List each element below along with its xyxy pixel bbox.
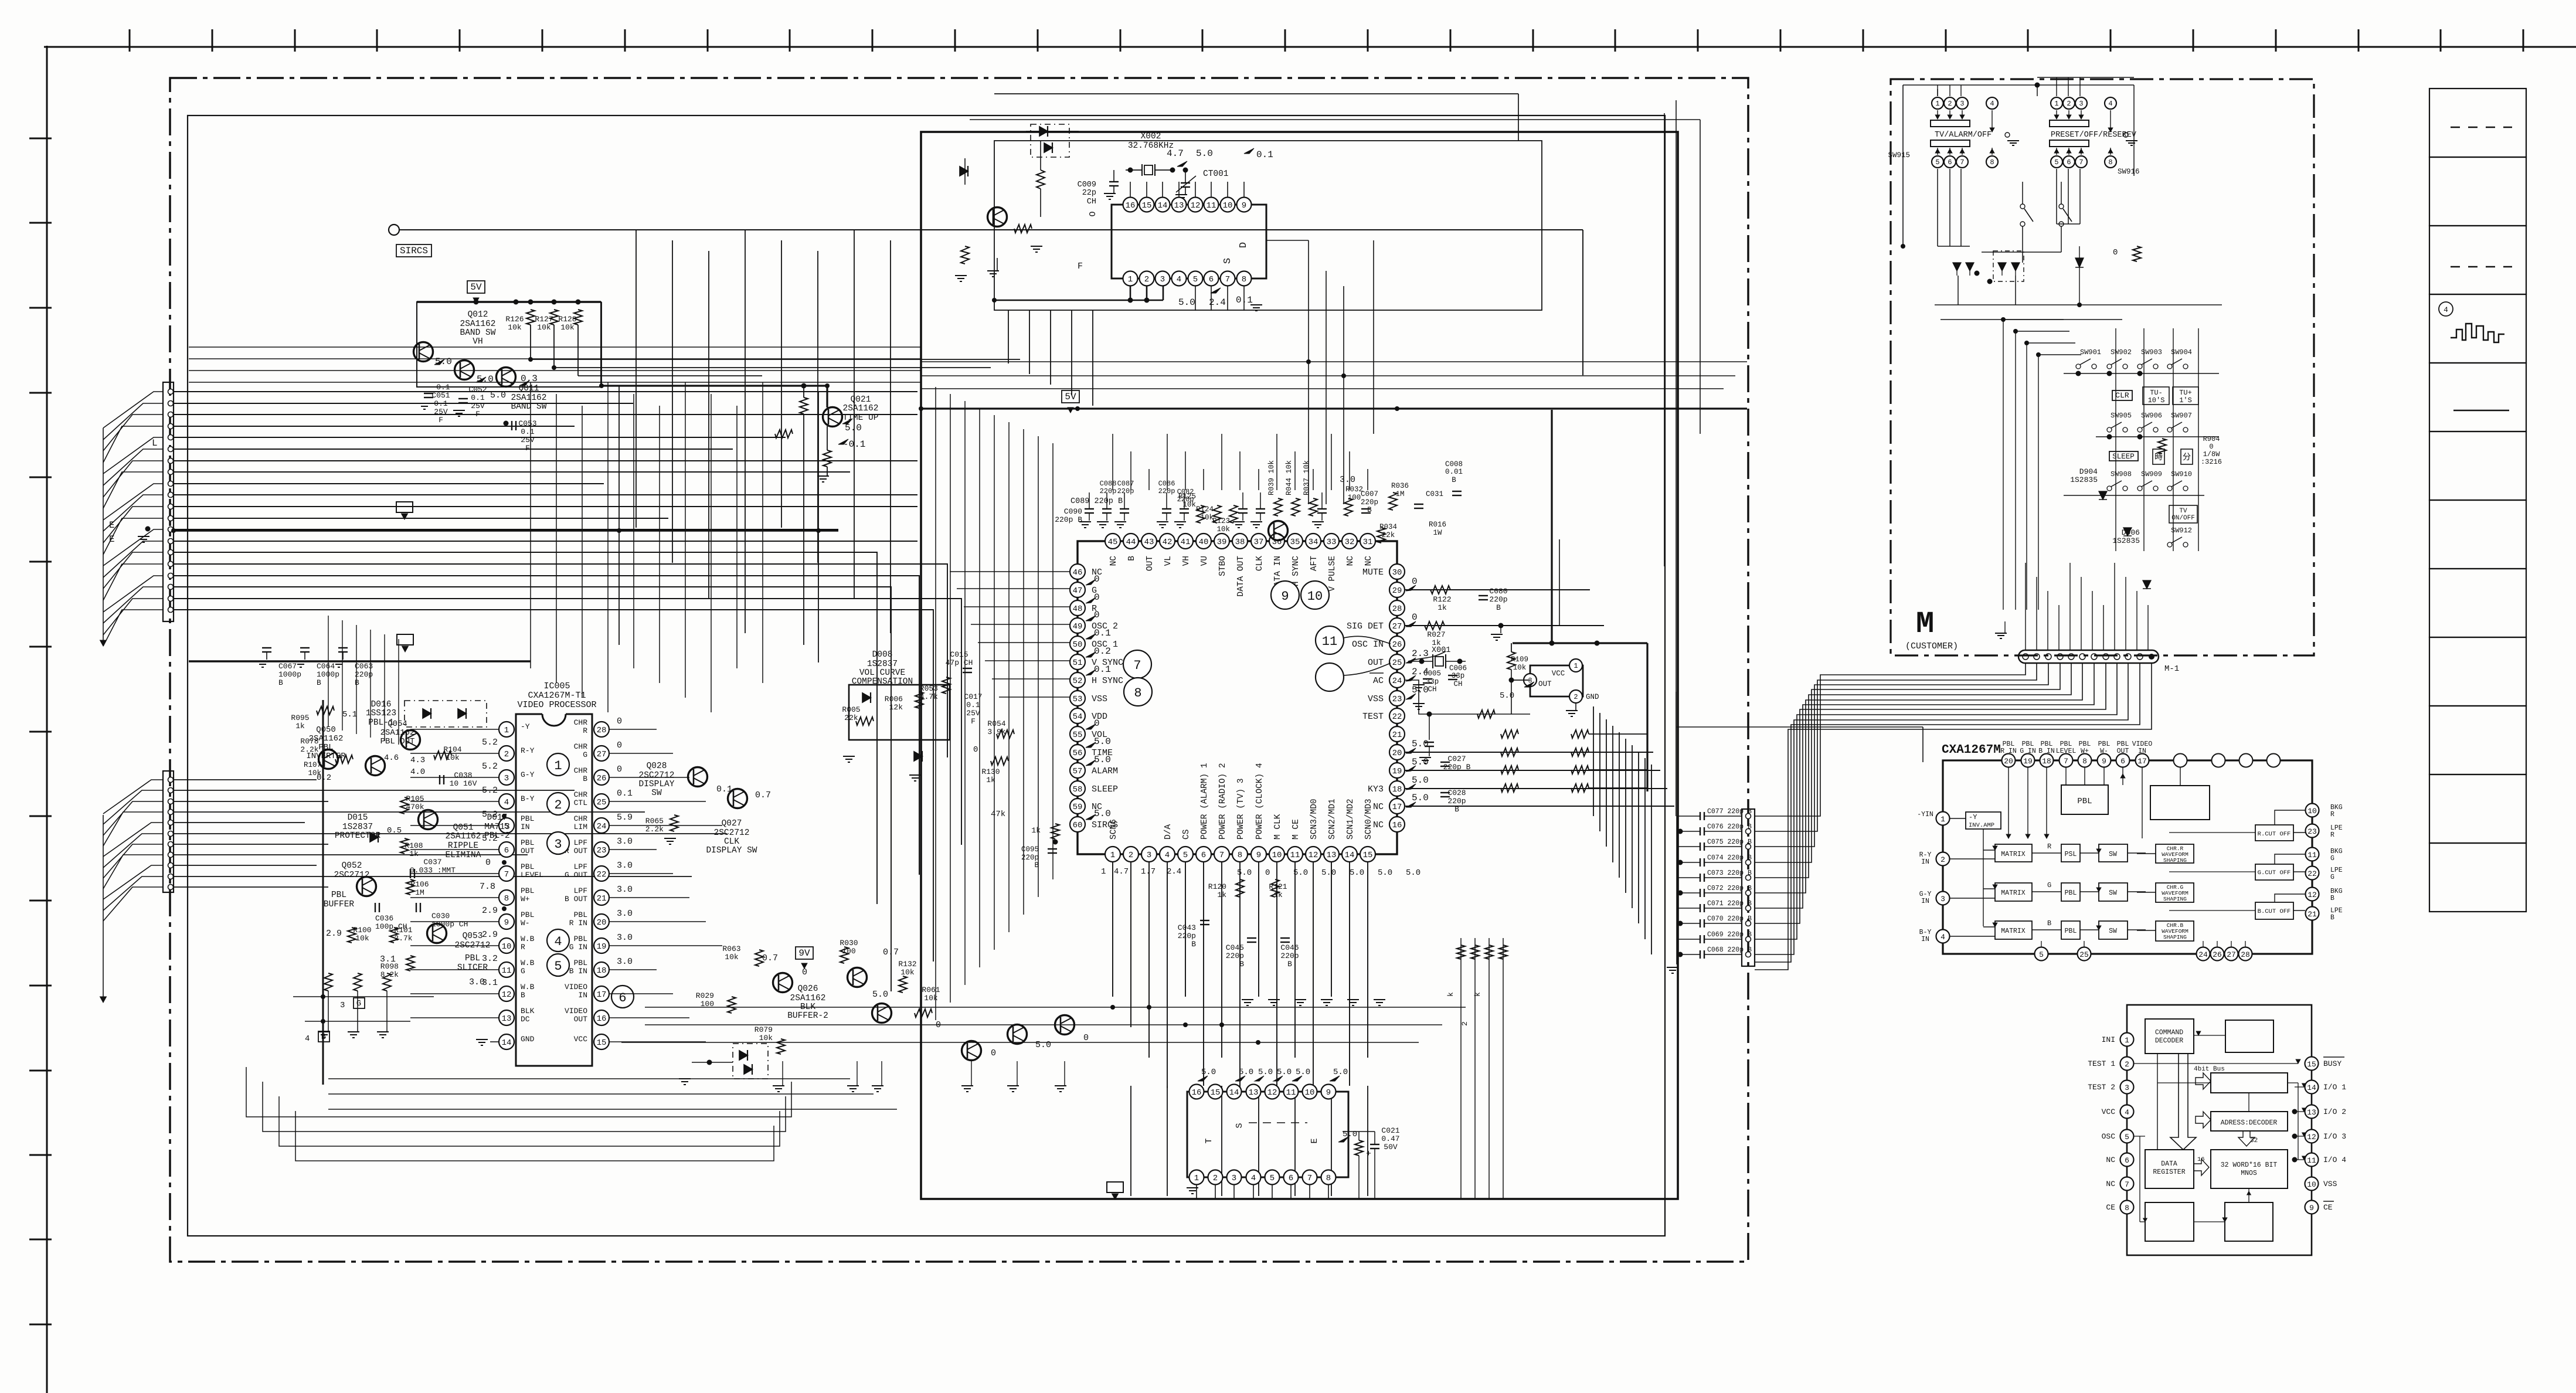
diode D002	[1039, 127, 1048, 136]
svg-text:SW908: SW908	[2111, 470, 2132, 478]
resistor R036	[1389, 492, 1397, 510]
svg-text:PSL: PSL	[2065, 851, 2077, 858]
M rotary feed stubs	[1937, 85, 1938, 96]
svg-text:2: 2	[1941, 855, 1945, 864]
svg-text:SW: SW	[2109, 889, 2117, 897]
svg-text:3.2: 3.2	[482, 954, 498, 964]
test pin TEST wires	[1413, 703, 1425, 704]
svg-text:L: L	[152, 438, 158, 449]
svg-text:10: 10	[2307, 1180, 2316, 1189]
svg-text:5.0: 5.0	[435, 356, 452, 367]
IC002 system control body	[1078, 541, 1397, 854]
left ruler tick marks	[29, 138, 52, 140]
svg-text:0: 0	[2113, 248, 2118, 257]
svg-text:5.0: 5.0	[1296, 1068, 1310, 1077]
svg-text:14: 14	[1158, 201, 1168, 210]
svg-text:LPF: LPF	[574, 862, 587, 871]
svg-text:0.033 :MMT: 0.033 :MMT	[410, 866, 456, 875]
resistor R105	[400, 797, 409, 814]
svg-text:5.0: 5.0	[872, 990, 888, 1000]
svg-text:G: G	[2330, 855, 2334, 862]
svg-text:1k: 1k	[1273, 891, 1283, 899]
svg-text:POWER (CLOCK) 4: POWER (CLOCK) 4	[1255, 763, 1265, 840]
IC005 body	[516, 714, 592, 1066]
svg-text:IN: IN	[1921, 858, 1929, 866]
svg-text:S: S	[1222, 258, 1233, 264]
svg-text:15: 15	[1142, 201, 1152, 210]
svg-text:BUFFER: BUFFER	[324, 900, 355, 909]
svg-text:50V: 50V	[1384, 1143, 1398, 1151]
zener D009	[914, 752, 922, 761]
svg-text:11: 11	[2307, 851, 2317, 859]
svg-text:1: 1	[1128, 275, 1133, 284]
svg-text:23: 23	[1392, 695, 1402, 704]
svg-text:SHAPING: SHAPING	[2163, 857, 2187, 864]
svg-text:20: 20	[1392, 749, 1402, 758]
svg-text:18: 18	[597, 966, 607, 976]
svg-text:B: B	[1496, 603, 1501, 612]
resistor R108	[400, 838, 409, 854]
svg-text:1S2837: 1S2837	[342, 823, 373, 832]
svg-text:35: 35	[1290, 538, 1300, 547]
svg-text:4.3: 4.3	[410, 756, 425, 765]
svg-text:SW905: SW905	[2111, 412, 2132, 420]
svg-text:M: M	[1916, 607, 1934, 641]
svg-text:10k: 10k	[560, 323, 575, 332]
svg-text:25V: 25V	[966, 709, 980, 718]
svg-text:50: 50	[1073, 640, 1083, 650]
resistor R121	[1271, 879, 1279, 897]
svg-text:28: 28	[2241, 950, 2250, 959]
svg-text:3.0: 3.0	[617, 909, 633, 919]
svg-text:55: 55	[1073, 731, 1083, 740]
clock sub-circuit box	[994, 141, 1542, 310]
svg-text:R095: R095	[291, 714, 309, 722]
resistor R037	[1309, 498, 1317, 516]
svg-text:8: 8	[2108, 158, 2112, 167]
svg-text:5.9: 5.9	[617, 813, 633, 823]
svg-text:34: 34	[1309, 538, 1318, 547]
svg-text:0.5: 0.5	[387, 826, 402, 835]
svg-text:R039 10k: R039 10k	[1267, 460, 1276, 495]
diode D015	[370, 833, 378, 842]
svg-text:1S2835: 1S2835	[2070, 475, 2098, 484]
svg-text:0.1: 0.1	[966, 701, 980, 709]
svg-text:VIDEO PROCESSOR: VIDEO PROCESSOR	[517, 700, 596, 710]
IC003 display body	[1187, 1092, 1348, 1177]
svg-text:7: 7	[1960, 158, 1964, 167]
svg-text:F: F	[1078, 261, 1083, 271]
svg-text:39: 39	[1217, 538, 1227, 547]
resistor R003	[1014, 225, 1032, 233]
svg-text:5.0: 5.0	[1321, 868, 1336, 878]
svg-text:7: 7	[504, 870, 509, 879]
svg-text:2.9: 2.9	[482, 930, 498, 940]
svg-text:7: 7	[2079, 158, 2083, 167]
svg-text:C072 220p B: C072 220p B	[1707, 885, 1752, 892]
svg-text:7: 7	[1225, 275, 1230, 284]
horizontal bus below IC002	[645, 1007, 1466, 1008]
svg-text:BAND SW: BAND SW	[460, 328, 496, 338]
svg-text:OUT: OUT	[1146, 556, 1155, 571]
svg-text:2SC2712: 2SC2712	[714, 828, 750, 838]
svg-text:26: 26	[1392, 640, 1402, 650]
svg-text:0: 0	[973, 745, 978, 755]
svg-text:D904: D904	[2079, 467, 2098, 476]
svg-text:B: B	[583, 774, 587, 783]
block SW B	[2099, 921, 2128, 939]
svg-text:10: 10	[502, 942, 512, 952]
connector CN-L1 pins and wires	[168, 389, 174, 395]
svg-text:0.1: 0.1	[1256, 150, 1273, 160]
wires from IC002 right pins to right bus	[1405, 589, 1590, 590]
svg-text:OUT: OUT	[574, 1015, 588, 1024]
switch bus row 3	[2064, 495, 2204, 496]
svg-text:CHR: CHR	[574, 814, 588, 823]
svg-text:SCN1/MD2: SCN1/MD2	[1346, 799, 1355, 840]
ground row bottom left cluster	[782, 1061, 783, 1086]
M block left bus lines	[2003, 320, 2004, 610]
svg-text:0: 0	[617, 765, 622, 774]
transistor Q032	[848, 968, 867, 987]
svg-text:-YIN: -YIN	[1917, 811, 1933, 818]
svg-text:0.7: 0.7	[762, 953, 778, 963]
svg-text:CH: CH	[1453, 680, 1462, 688]
diode dash-dot box bottom left	[733, 1044, 768, 1079]
svg-text:2SC2712: 2SC2712	[455, 941, 491, 950]
svg-text:R IN: R IN	[2000, 748, 2017, 755]
transistor Q011	[497, 368, 516, 387]
svg-text:R109: R109	[1511, 655, 1528, 664]
svg-text:H SYNC: H SYNC	[1292, 556, 1301, 587]
svg-text:R IN: R IN	[569, 919, 587, 927]
svg-text:16: 16	[1192, 1088, 1202, 1098]
svg-text:POWER (ALARM) 1: POWER (ALARM) 1	[1200, 763, 1209, 840]
svg-text:C069 220p B: C069 220p B	[1707, 931, 1752, 939]
svg-text:G: G	[521, 967, 525, 976]
svg-text:I/O 1: I/O 1	[2323, 1083, 2346, 1092]
potentiometer wires	[293, 996, 434, 997]
svg-text:VL: VL	[1164, 556, 1173, 566]
svg-text:PBL: PBL	[2065, 927, 2077, 935]
IC005 annotation circles 1-6	[547, 753, 569, 776]
svg-text:5.0: 5.0	[845, 423, 862, 433]
svg-text:X002: X002	[1141, 132, 1161, 141]
svg-text:11: 11	[2307, 1156, 2316, 1165]
wire bold vertical IC005 left	[322, 700, 324, 1085]
block bottom left NMOS	[2145, 1202, 2194, 1241]
svg-text:16: 16	[597, 1014, 607, 1024]
svg-text:0.1: 0.1	[521, 427, 535, 436]
svg-text:0.01: 0.01	[1445, 468, 1463, 476]
svg-text:C036: C036	[375, 914, 393, 923]
connector M-1	[2018, 650, 2159, 663]
svg-text:12: 12	[1191, 201, 1201, 210]
svg-text:45: 45	[1108, 538, 1118, 547]
svg-text:5: 5	[554, 959, 562, 974]
svg-text:33: 33	[1327, 538, 1337, 547]
svg-text:470k: 470k	[406, 803, 424, 811]
svg-text:25: 25	[597, 798, 607, 807]
legend dash symbol row 3	[2451, 266, 2512, 268]
svg-text:ADRESS:DECODER: ADRESS:DECODER	[2221, 1119, 2278, 1127]
svg-text:23: 23	[2307, 827, 2317, 836]
svg-text:1W: 1W	[1433, 529, 1442, 537]
svg-text:0: 0	[991, 1048, 996, 1058]
rotary switch SW915 pins 1-3	[1932, 97, 1943, 109]
svg-text:R904: R904	[2203, 435, 2220, 443]
rotary switch SW916 pin 8	[2105, 156, 2116, 168]
svg-text:DATA: DATA	[2161, 1160, 2177, 1168]
svg-text:4: 4	[1251, 1174, 1256, 1183]
svg-text:1k: 1k	[1437, 603, 1447, 612]
annotation circle blank	[1316, 663, 1344, 691]
capacitor C063	[338, 647, 348, 648]
label SIG DET OSC IN wires	[1408, 651, 1446, 661]
svg-text:2: 2	[504, 750, 509, 759]
connector CN-L2 body	[163, 771, 174, 892]
svg-text:ON/OFF: ON/OFF	[2171, 515, 2195, 522]
svg-text:2: 2	[1460, 1021, 1469, 1026]
svg-text:4: 4	[2125, 1108, 2129, 1117]
svg-text:BLK: BLK	[521, 1007, 535, 1015]
svg-text:INI: INI	[2102, 1035, 2115, 1044]
svg-text:B OUT: B OUT	[565, 895, 587, 903]
wires below IC002 vertical drops	[1112, 862, 1113, 997]
svg-text:5.0: 5.0	[1196, 148, 1213, 159]
svg-text:NC: NC	[1109, 556, 1119, 566]
svg-text:3: 3	[1960, 100, 1964, 108]
svg-text:G.CUT OFF: G.CUT OFF	[2258, 869, 2291, 876]
IC001 clock chip body	[1112, 205, 1266, 278]
bold supply wires to IC004	[1551, 410, 1552, 643]
transistor Q0xx left	[319, 750, 338, 769]
switch bus row 2	[2096, 436, 2219, 437]
svg-text:10: 10	[1223, 201, 1233, 210]
svg-text:TV: TV	[2179, 508, 2187, 515]
resistor R005	[856, 717, 874, 725]
svg-text:2.4: 2.4	[1209, 297, 1226, 308]
svg-text:-Y: -Y	[521, 722, 530, 731]
label SLEEP box	[2109, 451, 2138, 461]
block R.CUT OFF	[2255, 825, 2293, 841]
block unlabeled top right NMOS	[2225, 1020, 2273, 1052]
svg-text:19: 19	[2023, 757, 2033, 766]
svg-text:26: 26	[597, 774, 607, 783]
wire bus above IC002	[921, 361, 1747, 362]
svg-text:1: 1	[1194, 1174, 1199, 1183]
transistor Q031	[872, 1004, 892, 1023]
svg-text:E: E	[109, 520, 115, 531]
svg-text:VCC: VCC	[574, 1035, 588, 1044]
transistor Q026	[773, 973, 793, 993]
svg-text:R027: R027	[1427, 630, 1445, 639]
svg-text:B: B	[278, 678, 283, 687]
svg-text:0: 0	[1094, 718, 1100, 729]
svg-text:8: 8	[2125, 1204, 2129, 1212]
resistor below IC003	[1355, 1140, 1363, 1156]
svg-text:3: 3	[2125, 1083, 2129, 1092]
svg-text:CXA1267M-T1: CXA1267M-T1	[528, 691, 586, 701]
svg-text:7: 7	[2064, 757, 2068, 766]
svg-text:C028: C028	[1447, 789, 1466, 797]
svg-text:SW916: SW916	[2118, 168, 2140, 176]
svg-text:4: 4	[1990, 100, 1994, 108]
block MATRIX G	[1995, 883, 2032, 901]
svg-text:1k: 1k	[409, 850, 419, 858]
label TV ON/OFF box	[2169, 505, 2197, 523]
svg-text:11: 11	[1322, 634, 1337, 649]
svg-text:IN: IN	[2138, 748, 2146, 755]
svg-text:C088: C088	[1100, 480, 1117, 488]
svg-text:E: E	[109, 534, 115, 545]
svg-text:59: 59	[1073, 803, 1083, 812]
svg-text:220p: 220p	[1117, 487, 1134, 495]
wire fan IC002 right to connector caps	[1593, 706, 1594, 816]
bold 5V rail	[921, 407, 1747, 409]
svg-text:9V: 9V	[798, 948, 810, 959]
svg-text:F: F	[525, 444, 530, 453]
svg-text:21: 21	[2307, 910, 2317, 919]
svg-text:57: 57	[1073, 767, 1083, 776]
svg-text:SIG DET: SIG DET	[1347, 621, 1384, 631]
svg-text:Q027: Q027	[722, 819, 742, 828]
svg-text:9: 9	[1326, 1088, 1331, 1098]
IC002 bottom pins 1-15	[1105, 847, 1120, 862]
svg-text:2: 2	[1213, 1174, 1218, 1183]
svg-text:Q026: Q026	[798, 984, 818, 994]
svg-text:PBL: PBL	[331, 891, 346, 900]
svg-text:VIDEO: VIDEO	[565, 983, 587, 991]
svg-text:0.1: 0.1	[434, 399, 448, 408]
svg-text:10k: 10k	[725, 953, 739, 961]
svg-text:1: 1	[2054, 100, 2058, 108]
crystal X002	[1126, 169, 1142, 171]
svg-text:25V: 25V	[521, 436, 535, 444]
capacitor C005	[1423, 678, 1432, 679]
svg-text:8: 8	[1242, 275, 1246, 284]
svg-text:G IN: G IN	[2020, 748, 2036, 755]
svg-text:41: 41	[1181, 538, 1191, 547]
svg-text:C031: C031	[1426, 490, 1443, 498]
vertical wires from top area to IC002	[1112, 434, 1113, 490]
svg-text:IN: IN	[578, 991, 587, 1000]
svg-text:25V: 25V	[434, 407, 448, 416]
svg-text:R037 10k: R037 10k	[1303, 460, 1311, 495]
svg-text:20: 20	[2004, 757, 2013, 766]
svg-text:C070 220p B: C070 220p B	[1707, 915, 1752, 923]
svg-text:OSC IN: OSC IN	[1352, 640, 1384, 650]
svg-text:B: B	[355, 678, 359, 687]
svg-text:27: 27	[2227, 950, 2236, 959]
svg-text:CLR: CLR	[2115, 391, 2129, 400]
rotary switch SW916 pins 1-3	[2051, 97, 2062, 109]
svg-text:5.0: 5.0	[1239, 1068, 1253, 1077]
IC001 top pins 16-9	[1123, 198, 1138, 212]
svg-text:5.0: 5.0	[1412, 739, 1429, 749]
svg-text:RIPPLE: RIPPLE	[448, 841, 478, 851]
svg-text:PBL: PBL	[521, 910, 534, 919]
svg-text:R079: R079	[755, 1025, 773, 1034]
svg-text:6: 6	[1948, 158, 1952, 167]
svg-text:27: 27	[597, 750, 607, 759]
capacitor C053	[511, 421, 512, 430]
svg-text:R078: R078	[300, 737, 318, 746]
svg-text:5.2: 5.2	[482, 738, 498, 748]
svg-text:3.0: 3.0	[617, 861, 633, 871]
svg-text:R125: R125	[1178, 492, 1196, 501]
svg-text:54: 54	[1073, 712, 1083, 722]
connector CN-L2 pins and wires	[168, 777, 174, 783]
svg-text:CHR: CHR	[574, 790, 588, 799]
svg-text:220p: 220p	[1100, 487, 1117, 495]
svg-text:IN: IN	[1921, 898, 1929, 905]
svg-text:33p: 33p	[1426, 678, 1439, 686]
svg-text:51: 51	[1073, 658, 1083, 668]
svg-text:4.7: 4.7	[1114, 867, 1129, 876]
resistor R104	[434, 751, 451, 759]
M rotary lower pin wires	[1937, 169, 1938, 246]
resistor R032	[1344, 498, 1352, 516]
svg-text:15: 15	[1211, 1088, 1221, 1098]
svg-text:PBL-2: PBL-2	[484, 831, 510, 841]
svg-text:4.0: 4.0	[410, 767, 425, 777]
svg-text:W+: W+	[2081, 748, 2089, 755]
svg-text:0.3: 0.3	[521, 373, 538, 384]
wire AC pin to reset	[1405, 680, 1530, 714]
svg-text:10k: 10k	[1182, 501, 1196, 509]
svg-text:1'S: 1'S	[2179, 396, 2192, 405]
svg-text:0: 0	[1094, 592, 1100, 603]
svg-text:PBL: PBL	[2065, 889, 2077, 897]
svg-text:NC: NC	[1373, 820, 1384, 830]
svg-text:C076 220p B: C076 220p B	[1707, 823, 1752, 831]
svg-text:OUT: OUT	[1368, 658, 1384, 668]
svg-text:R: R	[2330, 811, 2334, 818]
svg-text:R126: R126	[505, 315, 524, 324]
svg-text:10: 10	[1272, 851, 1282, 860]
rotary switch SW916 pin 4	[2105, 97, 2116, 109]
svg-text:4: 4	[1941, 933, 1945, 942]
svg-text:OSC: OSC	[2102, 1132, 2116, 1141]
svg-text:10k: 10k	[1200, 514, 1214, 522]
svg-text:3: 3	[504, 774, 509, 783]
resistor row right of IC002	[1501, 730, 1518, 738]
svg-text:5: 5	[2054, 158, 2058, 167]
svg-text:Q028: Q028	[647, 762, 667, 771]
label hour box	[2153, 449, 2164, 464]
svg-text:B: B	[1287, 960, 1292, 969]
page border ruler top line	[44, 46, 2576, 48]
svg-text:2: 2	[1144, 275, 1149, 284]
svg-text:R101: R101	[394, 926, 412, 935]
svg-text:B: B	[1191, 940, 1196, 949]
svg-text:CT001: CT001	[1203, 169, 1229, 179]
svg-text:30: 30	[1392, 568, 1402, 577]
svg-text:B: B	[1452, 476, 1456, 484]
svg-text:F: F	[475, 410, 480, 419]
svg-text:13: 13	[1327, 851, 1337, 860]
resistor R107	[335, 755, 353, 763]
M block diodes row	[1953, 263, 1961, 271]
svg-text:G: G	[583, 750, 587, 759]
svg-text:R106: R106	[410, 880, 429, 889]
svg-text:G-Y: G-Y	[521, 770, 535, 779]
svg-text:8: 8	[1326, 1174, 1331, 1183]
svg-text:I/O 3: I/O 3	[2323, 1132, 2346, 1141]
svg-text:3: 3	[1147, 851, 1151, 860]
svg-text:SW907: SW907	[2171, 412, 2192, 420]
